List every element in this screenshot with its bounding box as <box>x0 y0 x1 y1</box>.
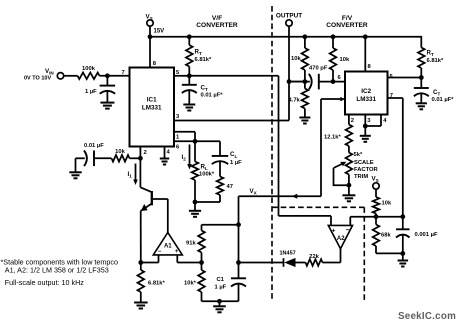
node A1 plus <box>199 260 204 265</box>
wire IC1 pin5 <box>174 75 189 77</box>
resistor R12 10k base <box>112 149 141 162</box>
node pin6 IC2 tap <box>331 79 336 84</box>
ground 0.001uF <box>398 253 409 266</box>
svg-text:4.7k: 4.7k <box>289 98 301 104</box>
capacitor CT2 0.01uF <box>414 78 454 104</box>
svg-text:0.01 µF*: 0.01 µF* <box>432 97 455 103</box>
ground CT2 <box>416 103 427 109</box>
IC U2 LM331 <box>345 72 388 115</box>
svg-text:CONVERTER: CONVERTER <box>326 22 368 29</box>
wire A1 output <box>167 199 169 233</box>
svg-text:A1: A1 <box>164 244 172 250</box>
ground IC1 pin4 <box>160 159 169 165</box>
svg-text:LM331: LM331 <box>142 105 162 112</box>
label V/F CONVERTER <box>196 15 238 29</box>
svg-text:0.01 µF*: 0.01 µF* <box>201 93 224 99</box>
note full-scale <box>5 278 85 287</box>
node RL gnd <box>193 200 198 205</box>
pin 5 label <box>176 70 180 76</box>
node 91k tap <box>236 222 241 227</box>
resistor R3 4.7k <box>289 82 309 117</box>
node output junction <box>287 79 292 84</box>
capacitor CL 1uF <box>212 151 242 176</box>
capacitor C3 0.01uF <box>84 143 112 166</box>
pin 1 label IC2 <box>340 97 344 103</box>
svg-text:10k*: 10k* <box>184 281 197 287</box>
svg-text:470 pF: 470 pF <box>309 66 328 72</box>
wire input <box>64 75 78 77</box>
node pin2 <box>138 156 143 161</box>
ground RL <box>189 202 201 217</box>
resistor R5 12.1k <box>324 125 352 147</box>
wire +15V rail <box>150 36 421 48</box>
svg-text:IC2: IC2 <box>361 88 371 95</box>
ground C1 line <box>213 301 226 312</box>
wire IC2 pin2 <box>348 115 350 125</box>
svg-text:1 µF: 1 µF <box>215 285 227 291</box>
resistor R10 10k star <box>184 263 205 302</box>
node input filter <box>105 73 110 78</box>
arrow Vx <box>292 194 298 199</box>
ground 0.01uF <box>69 172 81 178</box>
svg-text:91k: 91k <box>186 241 196 247</box>
wire IC2 pin8 <box>364 37 366 72</box>
resistor RT2 6.81k <box>418 48 444 78</box>
wire C1 bottom <box>202 300 239 302</box>
node gnd C1 <box>217 299 222 304</box>
resistor R11 6.81k star <box>138 263 166 303</box>
svg-text:−: − <box>158 249 162 255</box>
node pin16 <box>193 139 198 144</box>
wire Vx down <box>238 196 240 262</box>
svg-text:−: − <box>346 227 350 234</box>
svg-text:SeekIC.com: SeekIC.com <box>398 311 456 322</box>
svg-text:FACTOR: FACTOR <box>354 167 379 173</box>
resistor R9 91k <box>186 231 205 263</box>
wire output node to cap <box>289 81 305 83</box>
svg-text:12.1k*: 12.1k* <box>324 135 342 141</box>
resistor R4 10k <box>330 37 350 82</box>
svg-text:10k: 10k <box>340 57 350 63</box>
node pin8 rail <box>363 34 368 39</box>
node C1 top <box>236 260 241 265</box>
transistor Q1 <box>140 158 167 262</box>
node A1 minus <box>138 260 143 265</box>
svg-text:22k: 22k <box>309 254 319 260</box>
ground input cap <box>100 103 114 109</box>
wire diode to 22k <box>296 262 306 264</box>
wire A1 minus input <box>141 255 159 263</box>
wire cap to gnd <box>76 158 85 172</box>
pin 7 label IC2 <box>390 93 393 99</box>
resistor R7 68k <box>373 217 392 254</box>
wire 91k branch <box>202 225 239 231</box>
node A2 minus net right <box>400 214 405 219</box>
wire IC2 pin1 Vx <box>239 99 346 196</box>
resistor R8 22k <box>306 254 323 266</box>
pin 8 label <box>153 61 157 67</box>
svg-text:100k*: 100k* <box>199 172 215 178</box>
resistor R6 10k <box>373 189 392 217</box>
capacitor CT1 0.01uF <box>182 76 223 105</box>
svg-text:10k: 10k <box>291 56 301 62</box>
potentiometer 5k SCALE FACTOR TRIM <box>334 152 379 185</box>
svg-text:LM331: LM331 <box>356 96 376 103</box>
capacitor 1uF input <box>85 76 115 103</box>
ground 6.81k <box>134 303 148 309</box>
svg-text:A1, A2: 1/2 LM 358 or 1/2 LF35: A1, A2: 1/2 LM 358 or 1/2 LF353 <box>5 266 109 275</box>
wire IC2 pin5 <box>388 77 422 79</box>
node rail tap 10k left <box>303 34 308 39</box>
svg-text:15V: 15V <box>154 29 165 35</box>
node RT1 rail tap <box>187 34 192 39</box>
node pin5 IC2 <box>419 75 424 80</box>
node cap bottom <box>400 251 405 256</box>
wire IC1 pin3 to OUTPUT node <box>174 26 289 120</box>
resistor R2 10k <box>291 37 308 82</box>
pin 6 label IC2 <box>338 75 342 81</box>
op-amp A2 <box>328 225 352 248</box>
svg-text:TRIM: TRIM <box>354 174 368 180</box>
svg-text:10k: 10k <box>382 201 392 207</box>
svg-text:1 µF: 1 µF <box>85 89 97 95</box>
pin 2 label IC2 <box>351 118 354 124</box>
node pin3 gnd <box>363 124 368 129</box>
wire CL branch <box>195 141 220 156</box>
resistor R1 100k <box>78 66 100 79</box>
ground CT1 <box>183 105 195 111</box>
svg-text:F/V: F/V <box>342 15 353 22</box>
svg-text:6.81k*: 6.81k* <box>427 58 445 64</box>
ground pot <box>342 185 355 201</box>
wire A2 output <box>323 249 341 263</box>
svg-text:0.001 µF: 0.001 µF <box>415 232 438 238</box>
boundary dashed line horizontal <box>272 206 364 208</box>
wire IC1 pin6 <box>174 140 195 142</box>
current arrow I1 <box>128 164 138 186</box>
svg-text:IC1: IC1 <box>147 97 157 104</box>
svg-text:1 µF: 1 µF <box>230 160 242 166</box>
pin 3 label <box>176 114 180 120</box>
svg-text:+: + <box>332 228 336 235</box>
wire to pin 7 <box>100 75 130 77</box>
pin 7 label <box>122 70 125 76</box>
svg-text:10k: 10k <box>115 149 125 155</box>
output terminal <box>276 13 302 27</box>
pin 8 label IC2 <box>368 64 372 70</box>
wire 12.1k to pot <box>348 146 350 153</box>
svg-text:V/F: V/F <box>212 15 222 22</box>
svg-text:0V TO 10V: 0V TO 10V <box>24 75 51 81</box>
wire IC1 pin4 <box>164 147 166 159</box>
svg-text:Full-scale output: 10 kHz: Full-scale output: 10 kHz <box>5 278 85 287</box>
wire IC1 pin1 <box>174 132 195 142</box>
pin 4 label <box>167 150 171 156</box>
capacitor C2 0.001uF <box>396 217 438 254</box>
input terminal VIN <box>24 68 64 82</box>
pin 5 label IC2 <box>390 74 394 80</box>
svg-text:C1: C1 <box>217 277 225 283</box>
wire 68k to cap bottom <box>376 252 403 254</box>
op-amp A1 <box>153 233 182 256</box>
wire diode to node <box>239 262 284 264</box>
node Vs rail junction <box>148 34 153 39</box>
boundary dashed line 1 <box>271 6 273 299</box>
capacitor 470pF <box>289 66 345 90</box>
svg-text:SCALE: SCALE <box>354 160 374 166</box>
IC U1 LM331 <box>130 68 175 147</box>
svg-text:2: 2 <box>351 118 354 124</box>
pin 4 label IC2 <box>383 118 387 124</box>
node rail tap 10k right <box>331 34 336 39</box>
note stable components <box>1 258 118 275</box>
svg-text:0.01 µF: 0.01 µF <box>84 143 104 149</box>
wire IC2 pin7 <box>388 98 403 217</box>
capacitor C1 1uF <box>215 263 247 302</box>
svg-text:6.81k*: 6.81k* <box>148 281 166 287</box>
svg-text:CONVERTER: CONVERTER <box>196 22 238 29</box>
svg-text:7: 7 <box>122 70 125 76</box>
svg-text:5k*: 5k* <box>354 152 363 158</box>
svg-text:OUTPUT: OUTPUT <box>276 13 302 20</box>
watermark <box>398 311 456 322</box>
resistor R13 47 <box>217 177 233 203</box>
current arrow I2 <box>182 145 192 170</box>
ground 4.7k <box>299 118 310 124</box>
svg-text:2: 2 <box>144 150 147 156</box>
svg-text:100k: 100k <box>82 66 96 72</box>
svg-text:6.81k*: 6.81k* <box>195 57 213 63</box>
wire A2 minus net <box>350 217 403 226</box>
boundary dashed line 2 <box>363 207 365 302</box>
wire IC2 pin3 pin4 <box>365 115 381 127</box>
wire pin5 to A2 plus <box>189 76 331 226</box>
resistor RL 100k <box>192 141 215 202</box>
diode D1 1N457 <box>280 251 296 268</box>
svg-text:A2: A2 <box>337 236 345 242</box>
label F/V CONVERTER <box>326 15 368 29</box>
svg-text:1N457: 1N457 <box>280 251 296 257</box>
pin 3 label IC2 <box>367 118 371 124</box>
node pot bottom <box>347 183 352 188</box>
wire A1 plus input <box>177 255 201 263</box>
node 10k/4.7k junction <box>303 79 308 84</box>
power terminal VS2 <box>372 176 380 190</box>
resistor RT1 6.81k <box>186 37 212 76</box>
pin 6 label <box>176 145 180 151</box>
node A2 minus net left <box>374 214 379 219</box>
svg-text:+: + <box>175 249 179 255</box>
pin 1 label <box>176 135 180 141</box>
power terminal VS <box>146 14 165 68</box>
wire IC1 pin2 <box>139 147 141 159</box>
node pin5 <box>187 73 192 78</box>
pin 2 label <box>144 150 147 156</box>
svg-text:68k: 68k <box>381 233 391 239</box>
svg-text:47: 47 <box>227 184 233 190</box>
wire RL CL bottom <box>195 201 220 203</box>
label VX <box>250 188 258 196</box>
ground IC2 pin3 <box>360 126 371 142</box>
